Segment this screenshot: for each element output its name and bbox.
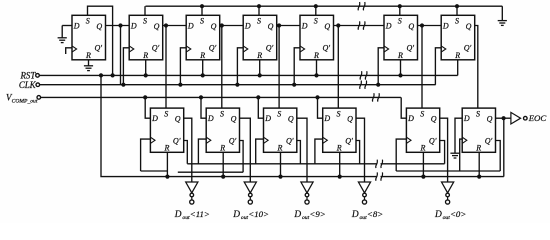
svg-text:Q: Q: [211, 22, 217, 31]
wire S1 loop to RST: [88, 6, 113, 75]
label D_out<0>: [434, 209, 466, 221]
wire S rail to S6: [399, 6, 401, 15]
svg-text:S: S: [86, 17, 90, 26]
svg-text:S: S: [398, 17, 402, 26]
svg-text:S: S: [314, 17, 318, 26]
junction reset rail node 6: [477, 175, 481, 179]
wire EOC feedback to reset rail: [503, 118, 505, 176]
svg-text:D: D: [187, 21, 194, 30]
label D_out<9>: [293, 209, 325, 221]
svg-text:Q′: Q′: [95, 44, 103, 53]
top D flip-flop U5: [300, 15, 334, 60]
svg-text:R: R: [475, 144, 481, 153]
svg-text:R: R: [199, 51, 205, 60]
wire Q5 to D6: [334, 25, 385, 27]
clock drop of U13: [460, 139, 463, 171]
junction S rail node 6: [398, 4, 402, 8]
svg-text:Q′: Q′: [266, 44, 274, 53]
junction Q3 wire tap: [220, 23, 224, 27]
svg-text:R: R: [397, 51, 403, 60]
junction Q2 wire tap: [164, 23, 168, 27]
wire Q1 tap to CLK: [120, 26, 122, 85]
wire Q of U9 to output buffer: [240, 118, 251, 182]
wire Q' chain mid left 2: [178, 171, 243, 173]
svg-text:R: R: [454, 51, 460, 60]
svg-text:R: R: [163, 144, 169, 153]
svg-text:R: R: [313, 51, 319, 60]
svg-text:Q: Q: [288, 115, 294, 124]
bottom D flip-flop U8: [150, 108, 183, 153]
svg-text:Q: Q: [96, 22, 102, 31]
wire Q' chain upper right: [381, 163, 445, 165]
wire V_COMP to D of U12: [401, 97, 406, 118]
junction V_COMP node 3: [256, 95, 260, 99]
junction Q6 wire tap: [420, 23, 424, 27]
break mark RST rail: [360, 71, 362, 79]
break mark Q5 wire: [358, 21, 360, 29]
svg-text:R: R: [219, 144, 225, 153]
svg-text:D: D: [151, 114, 158, 123]
clock drop of U11: [315, 139, 323, 164]
svg-text:S: S: [200, 17, 204, 26]
junction V_COMP node 2: [199, 95, 203, 99]
svg-text:Q: Q: [487, 115, 493, 124]
svg-text:D: D: [434, 210, 442, 220]
clock drop of U12: [396, 139, 406, 171]
svg-text:Q: Q: [268, 22, 274, 31]
svg-text:Q: Q: [347, 115, 353, 124]
wire Q4 to S of U10: [278, 26, 280, 109]
junction RST node 4: [258, 73, 262, 77]
svg-text:D: D: [73, 21, 80, 30]
output buffer D_out<0>: [442, 182, 454, 204]
wire R7 to RST rail end: [457, 60, 459, 76]
clock loop of U8: [141, 139, 151, 171]
junction RST tap: [99, 73, 103, 77]
wire R of U13 to reset rail: [478, 152, 480, 176]
wire Q' of U11 down: [356, 141, 360, 164]
clock drop of U10: [256, 139, 264, 164]
svg-text:CLK: CLK: [19, 80, 37, 90]
svg-text:S: S: [476, 109, 480, 118]
wire Q6 to S of U12: [421, 26, 423, 109]
svg-text:D: D: [130, 21, 137, 30]
junction CLK node 5: [292, 83, 296, 87]
wire Q of U13 to EOC buffer: [496, 117, 511, 119]
junction reset rail node 2: [221, 175, 225, 179]
wire R3 to RST: [202, 60, 204, 76]
wire S rail to S3: [201, 6, 203, 15]
wire R4 to RST: [259, 60, 261, 76]
wire Q6 to D7: [418, 25, 442, 27]
wire Q2 to S of U8: [165, 26, 167, 109]
top D flip-flop U6: [384, 15, 418, 60]
input terminal CLK: [19, 80, 40, 90]
junction S rail node 7: [455, 4, 459, 8]
svg-text:Q′: Q′: [209, 44, 217, 53]
wire Q2 to D3: [163, 25, 187, 27]
break mark V_COMP rail: [372, 93, 374, 101]
output buffer D_out<8>: [358, 182, 370, 204]
wire S rail to S7: [456, 6, 458, 15]
junction S1-RST: [111, 73, 115, 77]
input terminal RST: [20, 70, 40, 80]
wire CLK to clock 2: [123, 48, 129, 85]
wire Q' chain upper left: [187, 163, 377, 165]
bottom D flip-flop U12: [406, 108, 439, 153]
wire V_COMP to D of U8: [145, 97, 150, 118]
output buffer D_out<9>: [301, 182, 313, 204]
bottom D flip-flop U9: [206, 108, 239, 153]
label D_out<10>: [232, 209, 269, 221]
svg-text:Q′: Q′: [173, 137, 181, 146]
junction RST node 2: [144, 73, 148, 77]
bottom D flip-flop U11: [323, 108, 356, 153]
FF1 dangling clock stub: [66, 48, 72, 54]
ground at R1: [84, 60, 93, 71]
svg-text:R: R: [85, 51, 91, 60]
wire Q' chain mid right: [396, 170, 500, 172]
svg-text:S: S: [277, 109, 281, 118]
wire R5 to RST: [316, 60, 318, 76]
label D_out<8>: [351, 209, 383, 221]
wire V_COMP to D of U11: [318, 97, 323, 118]
ground at D input of U13: [450, 118, 462, 158]
svg-text:Q: Q: [231, 115, 237, 124]
wire R6 to RST: [400, 60, 402, 76]
svg-text:D: D: [293, 210, 301, 220]
break mark reset rail: [376, 172, 378, 180]
svg-text:D: D: [301, 21, 308, 30]
svg-text:Q: Q: [408, 22, 414, 31]
wire CLK to clock 4: [237, 48, 243, 85]
wire R of U9 to reset rail: [222, 152, 224, 176]
wire Q of U12 to output buffer: [440, 118, 448, 182]
svg-text:<10>: <10>: [248, 209, 269, 219]
junction CLK node 3: [178, 83, 182, 87]
svg-text:S: S: [337, 109, 341, 118]
wire Q' of U12 down: [440, 141, 445, 164]
svg-text:S: S: [420, 109, 424, 118]
wire S rail to S2: [144, 6, 146, 15]
svg-text:EOC: EOC: [528, 113, 547, 123]
junction Q5 wire tap: [336, 23, 340, 27]
bottom reset rail: [167, 176, 377, 178]
junction Q4 wire tap: [277, 23, 281, 27]
svg-text:Q′: Q′: [152, 44, 160, 53]
wire R of U11 to reset rail: [339, 152, 341, 176]
label D_out<11>: [174, 209, 210, 221]
svg-text:Q′: Q′: [407, 44, 415, 53]
wire CLK to clock 7: [435, 48, 441, 85]
wire Q' of U10 down: [297, 141, 301, 164]
wire R of U10 to reset rail: [280, 152, 282, 176]
input terminal V_COMP_out: [6, 93, 41, 105]
clock drop of U9: [198, 139, 206, 164]
svg-text:D: D: [232, 210, 240, 220]
ground at D1 input: [58, 26, 72, 43]
top D flip-flop U7: [441, 15, 475, 60]
junction CLK node 4: [235, 83, 239, 87]
svg-text:<8>: <8>: [367, 209, 383, 219]
junction reset rail node 4: [338, 175, 342, 179]
top D flip-flop U2: [129, 15, 163, 60]
svg-text:<0>: <0>: [450, 209, 466, 219]
junction RST node 3: [201, 73, 205, 77]
junction reset rail node 3: [278, 175, 282, 179]
wire R2 to RST: [145, 60, 147, 76]
wire Q' of U8 down: [184, 141, 188, 164]
S rail to ground (top): [146, 5, 503, 7]
wire R of U8 to reset rail: [166, 152, 168, 176]
svg-text:<9>: <9>: [309, 209, 325, 219]
svg-text:R: R: [336, 144, 342, 153]
wire Q' of U9 down: [240, 141, 244, 173]
top D flip-flop U1: [72, 15, 106, 60]
junction Q1 wire: [118, 23, 122, 27]
junction RST node 5: [314, 73, 318, 77]
wire CLK to clock 3: [180, 48, 186, 85]
svg-text:S: S: [143, 17, 147, 26]
junction S rail node 4: [257, 4, 261, 8]
svg-text:S: S: [220, 109, 224, 118]
output buffer D_out<11>: [186, 182, 198, 204]
svg-text:Q′: Q′: [429, 137, 437, 146]
svg-text:R: R: [256, 51, 262, 60]
svg-text:D: D: [244, 21, 251, 30]
junction reset rail node 1: [165, 175, 169, 179]
svg-text:S: S: [455, 17, 459, 26]
svg-text:S: S: [164, 109, 168, 118]
svg-text:D: D: [463, 114, 470, 123]
svg-text:Q′: Q′: [323, 44, 331, 53]
break mark S rail: [358, 2, 360, 10]
junction EOC node: [502, 116, 506, 120]
svg-text:D: D: [207, 114, 214, 123]
top D flip-flop U3: [186, 15, 220, 60]
junction V_COMP node 1: [143, 95, 147, 99]
svg-text:D: D: [174, 210, 182, 220]
bottom D flip-flop U10: [264, 108, 297, 153]
wire Q3 to D4: [220, 25, 244, 27]
junction reset rail node 5: [421, 175, 425, 179]
wire Q' of U13 down: [496, 141, 501, 172]
wire CLK to clock 5: [294, 48, 300, 85]
break mark CLK rail: [360, 81, 362, 89]
wire Q' chain mid left: [141, 170, 168, 172]
junction V_COMP node 4: [315, 95, 319, 99]
top D flip-flop U4: [243, 15, 277, 60]
svg-text:S: S: [257, 17, 261, 26]
svg-text:Q′: Q′: [485, 137, 493, 146]
svg-text:Q′: Q′: [286, 137, 294, 146]
wire CLK to clock 6: [378, 48, 384, 85]
break mark chain rail: [376, 160, 378, 168]
wire V_COMP to D of U9: [201, 97, 206, 118]
wire Q3 to S of U9: [221, 26, 223, 109]
RST rail: [39, 74, 457, 76]
wire Q of U8 to output buffer: [184, 118, 192, 182]
junction S rail node 5: [314, 4, 318, 8]
svg-text:Q: Q: [324, 22, 330, 31]
svg-text:RST: RST: [20, 70, 37, 80]
ground (top right): [501, 6, 503, 20]
junction CLK node 2: [121, 83, 125, 87]
wire Q4 to D5: [277, 25, 300, 27]
svg-text:<11>: <11>: [190, 209, 210, 219]
svg-text:R: R: [277, 144, 283, 153]
junction S rail node 3: [200, 4, 204, 8]
wire Q7 to S of U13: [475, 26, 478, 109]
junction RST node 6: [398, 73, 402, 77]
svg-text:Q: Q: [431, 115, 437, 124]
svg-text:Q: Q: [175, 115, 181, 124]
wire Q of U11 to output buffer: [356, 118, 365, 182]
svg-text:Q: Q: [466, 22, 472, 31]
svg-text:D: D: [442, 21, 449, 30]
bottom D flip-flop U13: [462, 108, 495, 153]
svg-text:Q′: Q′: [229, 137, 237, 146]
wire S rail to S4: [258, 6, 260, 15]
buffer EOC: [511, 112, 527, 124]
svg-text:Q: Q: [154, 22, 160, 31]
svg-text:Q′: Q′: [345, 137, 353, 146]
wire V_COMP to D of U10: [258, 97, 263, 118]
wire Q of U10 to output buffer: [297, 118, 307, 182]
wire Q1 to D2: [106, 25, 130, 27]
wire R of U12 to reset rail: [422, 152, 424, 176]
CLK rail: [40, 84, 436, 86]
svg-text:D: D: [323, 114, 330, 123]
svg-text:Q′: Q′: [464, 44, 472, 53]
wire RST to bottom reset rail: [101, 75, 167, 176]
svg-text:D: D: [385, 21, 392, 30]
V_COMP_out rail: [41, 96, 401, 98]
output buffer D_out<10>: [244, 182, 256, 204]
svg-text:R: R: [142, 51, 148, 60]
svg-text:D: D: [407, 114, 414, 123]
svg-text:COMP_out: COMP_out: [12, 99, 38, 105]
junction CLK node 6: [376, 83, 380, 87]
wire Q5 to S of U11: [337, 26, 339, 109]
svg-text:R: R: [419, 144, 425, 153]
svg-text:D: D: [264, 114, 271, 123]
svg-text:D: D: [351, 210, 359, 220]
wire S rail to S5: [315, 6, 317, 15]
